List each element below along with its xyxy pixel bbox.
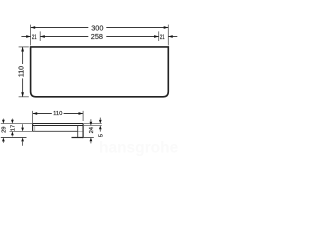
extension line slab bottom level left bbox=[10, 130, 33, 132]
extension line left for 110 side bbox=[32, 111, 34, 124]
extension line left of 300 dim bbox=[30, 25, 32, 46]
svg-text:17: 17 bbox=[11, 125, 17, 131]
extension line right of 300 dim bbox=[167, 25, 169, 46]
svg-text:300: 300 bbox=[91, 23, 103, 32]
svg-text:5: 5 bbox=[98, 134, 104, 137]
slab inner left line bbox=[34, 126, 36, 132]
svg-text:110: 110 bbox=[18, 66, 25, 77]
svg-text:110: 110 bbox=[53, 111, 62, 117]
dimension 21 right bbox=[168, 36, 177, 38]
side view slab: glass top line bbox=[33, 123, 84, 125]
extension tick bottom for 110 plan dim bbox=[19, 96, 29, 98]
svg-text:21: 21 bbox=[32, 34, 37, 41]
extension line bracket bottom right bbox=[83, 137, 94, 139]
svg-text:29: 29 bbox=[2, 126, 8, 132]
extension line top-left (slab top level) bbox=[1, 123, 33, 125]
extension line right for 110 side bbox=[82, 111, 84, 121]
bracket front edge bbox=[77, 126, 79, 138]
dimension small (left third, bracket drop) bbox=[22, 124, 24, 128]
dimension 21 left bbox=[21, 36, 30, 38]
extension line left of 258 dim bbox=[39, 31, 41, 41]
dimension 29 (left outer) bbox=[2, 120, 5, 124]
svg-text:hansgrohe: hansgrohe bbox=[99, 140, 178, 157]
dimension 17 (left inner) bbox=[11, 120, 14, 124]
glass bottom line bbox=[33, 125, 84, 127]
dimension 110 plan vertical line bbox=[22, 47, 24, 64]
extension line glass top right bbox=[83, 123, 102, 125]
dimension 24 (right) bbox=[90, 122, 93, 126]
plan view shelf outline 300x110 bbox=[31, 47, 169, 97]
dimension 5 (right) bbox=[99, 120, 102, 124]
dimension 258 line bbox=[40, 36, 88, 38]
dimension 300 line bbox=[31, 27, 89, 29]
svg-text:21: 21 bbox=[160, 34, 165, 41]
slab left edge bbox=[32, 124, 34, 132]
side view: dimension 110 line bbox=[33, 113, 52, 115]
slab bottom line bbox=[33, 130, 78, 132]
extension tick top for 110 plan dim bbox=[19, 46, 29, 48]
extension line bracket bottom level left bbox=[1, 137, 27, 139]
slab right (wall) edge bbox=[82, 124, 84, 139]
svg-text:24: 24 bbox=[89, 126, 95, 133]
extension line glass bottom right bbox=[83, 125, 102, 127]
slab bottom under bracket (faint) bbox=[78, 130, 83, 132]
svg-text:258: 258 bbox=[91, 32, 103, 41]
bracket bottom bbox=[72, 137, 84, 139]
extension line right of 258 dim bbox=[158, 31, 160, 41]
